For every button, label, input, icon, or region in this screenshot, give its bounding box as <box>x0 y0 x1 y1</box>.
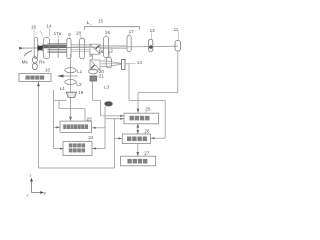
lens 13 <box>149 39 153 51</box>
text blobs box1 <box>130 116 150 121</box>
lens pair 8 <box>67 38 71 58</box>
lens 17b <box>127 36 131 52</box>
wire loop boxA control <box>38 82 40 168</box>
beamsplitter cube 1 <box>90 44 100 54</box>
chain line <box>92 81 94 100</box>
box B scan driver <box>60 121 92 132</box>
box C focus control <box>63 142 92 156</box>
beamsplitter cube 2 <box>92 54 94 60</box>
box A light source driver <box>19 74 51 82</box>
left chain down <box>70 54 72 92</box>
svg-text:14: 14 <box>46 24 52 29</box>
wire left column <box>53 90 55 149</box>
wire scanner to boxB <box>70 98 72 121</box>
svg-text:11: 11 <box>174 27 179 32</box>
svg-text:y: y <box>44 190 46 195</box>
svg-text:14: 14 <box>137 60 143 65</box>
wire box1 box2 <box>137 124 139 134</box>
svg-text:x: x <box>27 192 29 197</box>
ellipse 20 <box>89 69 98 74</box>
text blobs box3 <box>127 159 147 164</box>
lens L2 <box>65 80 76 85</box>
left curved mirror Ms <box>24 51 32 56</box>
wire chain to box1 <box>93 99 101 101</box>
svg-text:Rs: Rs <box>39 60 45 65</box>
input arrow <box>19 47 24 50</box>
box 2 image processing <box>122 134 150 144</box>
detector lens <box>106 57 111 68</box>
svg-text:21: 21 <box>99 74 105 79</box>
svg-text:17: 17 <box>129 29 135 34</box>
svg-text:15: 15 <box>98 18 104 23</box>
svg-text:27: 27 <box>144 150 150 155</box>
svg-text:24: 24 <box>88 135 94 140</box>
wire sample branch <box>104 106 106 148</box>
label leaders <box>34 23 179 157</box>
beam hatch right section <box>71 44 127 51</box>
text blobs box2 <box>127 137 147 142</box>
svg-text:L3: L3 <box>104 84 110 89</box>
lens 11 <box>175 40 181 51</box>
lens 16b <box>104 37 109 58</box>
svg-text:9: 9 <box>89 53 92 58</box>
box 1 image construction <box>124 113 159 124</box>
svg-text:10: 10 <box>45 68 51 73</box>
beam hatch left section <box>48 44 68 53</box>
svg-text:16: 16 <box>105 30 111 35</box>
svg-text:18: 18 <box>76 31 82 36</box>
leader 14 <box>127 62 136 65</box>
svg-text:L2: L2 <box>76 82 82 87</box>
vertical lens 17a <box>57 39 59 58</box>
text blobs boxB <box>63 124 88 129</box>
beam dark core <box>43 45 68 49</box>
bracket 15 <box>85 27 140 30</box>
svg-text:L1: L1 <box>77 69 83 74</box>
slit element 16 <box>34 38 38 59</box>
svg-text:19: 19 <box>78 90 84 95</box>
element 21 <box>90 76 97 81</box>
scanner 19 <box>66 92 76 97</box>
text blobs boxC <box>69 143 85 152</box>
svg-text:8: 8 <box>68 32 71 37</box>
lens 18 <box>80 38 85 58</box>
svg-text:17a: 17a <box>54 31 62 36</box>
wire detector to box2 <box>125 63 129 65</box>
lens L1 <box>65 68 76 73</box>
detector 14 <box>122 60 126 70</box>
coordinate axes <box>31 179 33 193</box>
optical axis <box>19 46 178 48</box>
svg-text:23: 23 <box>87 116 93 121</box>
number labels <box>22 18 179 197</box>
svg-text:16: 16 <box>98 49 104 54</box>
black lens <box>38 45 43 50</box>
text blobs boxA <box>26 76 45 80</box>
svg-text:26: 26 <box>144 129 150 134</box>
arrow line <box>58 75 79 77</box>
lens 14 <box>43 38 49 59</box>
svg-text:13: 13 <box>150 28 156 33</box>
svg-text:z: z <box>30 172 32 177</box>
svg-text:16: 16 <box>31 25 37 30</box>
svg-text:Ms: Ms <box>22 60 29 65</box>
box 3 output <box>121 156 156 166</box>
svg-text:1: 1 <box>86 20 89 25</box>
wire lens11 to box1 <box>177 51 179 93</box>
svg-text:25: 25 <box>145 107 151 112</box>
sample <box>104 101 112 106</box>
oval pair Rs <box>32 57 37 63</box>
svg-text:12: 12 <box>108 49 114 54</box>
detector rays <box>101 61 122 63</box>
svg-text:L4: L4 <box>60 86 66 91</box>
wire box2 box3 <box>137 144 139 156</box>
